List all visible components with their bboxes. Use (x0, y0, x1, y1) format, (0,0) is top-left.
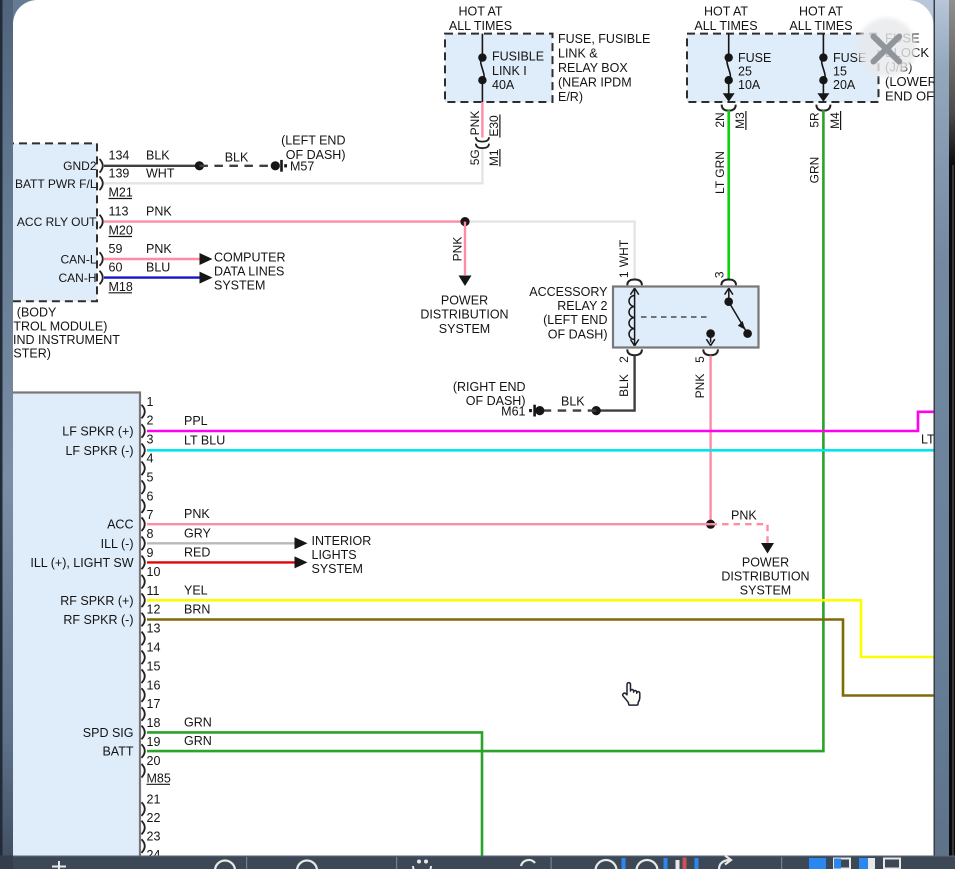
relay switch blade (729, 302, 752, 338)
pin 17 bracket (142, 707, 145, 721)
svg-text:BLK: BLK (561, 395, 585, 409)
svg-text:POWER: POWER (742, 555, 789, 569)
svg-text:21: 21 (147, 792, 161, 806)
toolbar icon: blue square 3 (859, 858, 875, 869)
svg-text:FUSE: FUSE (738, 51, 771, 65)
svg-text:RELAY 2: RELAY 2 (557, 299, 607, 313)
svg-text:WHT: WHT (146, 166, 175, 180)
pin bracket GND2 (100, 159, 103, 173)
note POWER DISTRIBUTION SYSTEM (right) (721, 555, 809, 597)
arrow RED to interior lights (295, 556, 308, 568)
wire WHT junction to relay pin1 (465, 222, 635, 280)
wire GRN fuse15 to pin19 BATT (147, 110, 823, 751)
wire BLK dashed to M61 (540, 409, 596, 411)
toolbar icon: square 2 (834, 859, 850, 869)
wire LT BLU LF SPKR (-) (147, 449, 936, 452)
note (RIGHT END OF DASH) (453, 380, 526, 408)
toolbar icon: chart bars (676, 860, 680, 869)
label ACCESSORY RELAY 2 (LEFT END OF DASH) (529, 285, 608, 342)
svg-text:SYSTEM: SYSTEM (740, 584, 791, 598)
relay pin5 connector arc (703, 349, 718, 355)
svg-text:TROL MODULE): TROL MODULE) (13, 319, 107, 333)
svg-text:(RIGHT END: (RIGHT END (453, 380, 526, 394)
svg-text:(NEAR IPDM: (NEAR IPDM (558, 76, 632, 90)
svg-text:PNK: PNK (468, 111, 482, 136)
svg-text:STER): STER) (13, 347, 51, 361)
svg-text:113: 113 (109, 204, 129, 218)
svg-text:FUSE, FUSIBLE: FUSE, FUSIBLE (558, 32, 650, 46)
svg-text:PNK: PNK (693, 374, 707, 399)
wire BRN RF SPKR (-) (147, 620, 936, 696)
svg-text:15: 15 (147, 659, 161, 673)
toolbar icon: refresh (521, 860, 535, 866)
svg-text:M18: M18 (109, 280, 133, 294)
right scrollbar track (934, 0, 950, 869)
svg-text:DISTRIBUTION: DISTRIBUTION (420, 308, 508, 322)
svg-text:ALL TIMES: ALL TIMES (789, 19, 852, 33)
relay pin2 connector arc (627, 349, 642, 355)
wire GRN SPD SIG (147, 732, 482, 856)
junction dot ACC/PNK (706, 520, 715, 529)
toolbar icon: zoom circle 3 (596, 860, 617, 869)
svg-text:M1: M1 (487, 149, 501, 166)
svg-text:LF SPKR (-): LF SPKR (-) (65, 444, 133, 458)
pin 8 bracket (142, 537, 145, 551)
svg-text:POWER: POWER (441, 293, 488, 307)
svg-text:RF SPKR (+): RF SPKR (+) (60, 594, 133, 608)
accessory relay 2 box (613, 287, 759, 348)
note FUSE, FUSIBLE LINK & RELAY BOX (NEAR IPDM E/R) (558, 32, 650, 104)
svg-text:13: 13 (147, 622, 161, 636)
svg-text:5G: 5G (468, 149, 482, 165)
pin 24 bracket (142, 858, 145, 869)
relay pin1 connector arc (627, 280, 642, 286)
toolbar icon: square 4 (884, 859, 900, 869)
arrow CAN-H (200, 272, 213, 284)
relay linkage dashed line (641, 316, 711, 318)
label FUSE 15 20A (833, 51, 866, 92)
label HOT AT ALL TIMES (right) (789, 5, 852, 33)
wire PPL LF SPKR (+) (147, 412, 936, 431)
splice dot (592, 406, 601, 415)
svg-text:9: 9 (147, 546, 154, 560)
wire PNK drop to power distribution (464, 222, 466, 275)
svg-text:ALL TIMES: ALL TIMES (449, 19, 512, 33)
svg-text:E/R): E/R) (558, 90, 583, 104)
pin 2 bracket (142, 424, 145, 438)
svg-text:M3: M3 (733, 112, 747, 129)
rounded corner top-right (908, 0, 934, 26)
svg-text:GRN: GRN (184, 734, 212, 748)
toolbar icon: pan (52, 861, 66, 869)
svg-text:18: 18 (147, 716, 161, 730)
svg-text:BATT: BATT (102, 745, 133, 759)
svg-text:M85: M85 (147, 771, 171, 785)
svg-text:HOT AT: HOT AT (459, 5, 503, 19)
wire GRY ILL (-) (147, 542, 295, 544)
pin bracket BATT PWR F/L (100, 177, 103, 191)
svg-text:LT GRN: LT GRN (713, 151, 727, 194)
toolbar icon: blue bar 1 (622, 858, 626, 869)
pin 15 bracket (142, 669, 145, 683)
svg-text:GRN: GRN (184, 715, 212, 729)
wire PNK below fusible link (481, 102, 483, 138)
pin 14 bracket (142, 651, 145, 665)
pin 13 bracket (142, 632, 145, 646)
svg-text:DATA LINES: DATA LINES (214, 265, 284, 279)
svg-text:ALL TIMES: ALL TIMES (694, 19, 757, 33)
svg-text:LINK I: LINK I (492, 64, 527, 78)
pin 9 bracket (142, 556, 145, 570)
in-line connector E30/M1 (476, 137, 489, 148)
svg-text:CAN-L: CAN-L (60, 253, 96, 267)
relay switch pin3 contact (724, 288, 733, 306)
svg-text:PNK: PNK (146, 242, 172, 256)
wire ACC RLY OUT 113 PNK (104, 220, 465, 222)
svg-text:5: 5 (693, 356, 707, 363)
svg-text:PNK: PNK (146, 204, 172, 218)
svg-text:3: 3 (147, 433, 154, 447)
svg-text:1: 1 (617, 271, 631, 278)
svg-text:2: 2 (617, 356, 631, 363)
splice dot on BLK wire (195, 161, 204, 170)
note INTERIOR LIGHTS SYSTEM (312, 534, 372, 576)
svg-text:10: 10 (147, 565, 161, 579)
pin 11 bracket (142, 594, 145, 608)
svg-text:BATT PWR F/L: BATT PWR F/L (15, 177, 97, 191)
label HOT AT ALL TIMES (left) (449, 5, 512, 33)
svg-text:4: 4 (147, 452, 154, 466)
svg-text:20: 20 (147, 754, 161, 768)
toolbar separator (246, 857, 247, 869)
svg-text:60: 60 (109, 260, 123, 274)
pin 3 bracket (142, 444, 145, 458)
splice dot at M61 (535, 406, 544, 415)
wire BLK relay pin2 (596, 356, 634, 411)
pin 21 bracket (142, 802, 145, 816)
svg-text:OF DASH): OF DASH) (286, 148, 346, 162)
svg-text:LIGHTS: LIGHTS (312, 548, 357, 562)
svg-text:IND INSTRUMENT: IND INSTRUMENT (13, 333, 120, 347)
label FUSE 25 10A (738, 51, 771, 92)
wire BLK dashed segment to M57 (199, 165, 275, 167)
svg-text:OF DASH): OF DASH) (466, 394, 526, 408)
pin 19 bracket (142, 744, 145, 758)
svg-text:LT BLU: LT BLU (184, 433, 225, 447)
fuse block J/B box (dashed) (687, 34, 879, 102)
svg-text:LINK &: LINK & (558, 47, 598, 61)
svg-text:E30: E30 (487, 115, 501, 137)
svg-text:59: 59 (109, 242, 123, 256)
svg-text:139: 139 (109, 166, 130, 180)
note (LEFT END OF DASH) (281, 134, 345, 162)
toolbar icon: blue bar 2 (664, 858, 668, 869)
junction dot PNK/WHT (460, 217, 469, 226)
svg-text:ACC: ACC (107, 518, 133, 532)
arrow to power distribution system (right) (761, 543, 774, 554)
wire PNK relay pin5 to junction (709, 356, 711, 525)
pin 12 bracket (142, 613, 145, 627)
relay pin3 connector arc (721, 280, 736, 286)
toolbar icon: blue square 1 (809, 858, 826, 869)
pin 22 bracket (142, 821, 145, 835)
pin 23 bracket (142, 839, 145, 853)
wire PNK dashed to power distribution (711, 524, 768, 543)
toolbar icon: blue bar 3 (695, 858, 699, 869)
svg-text:ILL (-): ILL (-) (101, 537, 134, 551)
svg-text:WHT: WHT (617, 239, 631, 267)
svg-text:HOT AT: HOT AT (704, 5, 748, 19)
svg-text:1: 1 (147, 395, 154, 409)
wire CAN-H 60 BLU (104, 276, 200, 278)
fuse 15 20A symbol (817, 34, 829, 102)
connector 2N/M3 (722, 105, 736, 111)
svg-text:M20: M20 (109, 224, 133, 238)
svg-text:INTERIOR: INTERIOR (312, 534, 372, 548)
svg-text:GND2: GND2 (63, 159, 97, 173)
arrow CAN-L (200, 253, 213, 265)
label HOT AT ALL TIMES (middle) (694, 5, 757, 33)
relay pin5 contact (706, 329, 715, 345)
arrow to power distribution system (left) (459, 276, 472, 287)
toolbar separator (551, 857, 552, 869)
wire LT GRN fuse25 to relay pin3 (727, 110, 730, 279)
svg-text:RED: RED (184, 545, 210, 559)
svg-text:(LEFT END: (LEFT END (281, 134, 345, 148)
svg-text:BRN: BRN (184, 602, 210, 616)
svg-text:SYSTEM: SYSTEM (214, 279, 265, 293)
toolbar icon: share arrow (719, 856, 731, 869)
toolbar icon: keyboard (413, 860, 431, 869)
pin 7 bracket (142, 517, 145, 531)
bottom toolbar (0, 856, 955, 869)
svg-text:(BODY: (BODY (17, 306, 57, 320)
pin bracket CAN-H (100, 271, 103, 285)
toolbar icon: zoom circle 4 (637, 860, 658, 869)
splice dot at M57 (271, 161, 280, 170)
svg-text:15: 15 (833, 65, 847, 79)
svg-text:BLU: BLU (146, 260, 170, 274)
arrow GRY to interior lights (295, 537, 308, 549)
pin 20 bracket (142, 764, 145, 778)
relay coil with arrows (pin1-pin2) (629, 288, 639, 346)
wire YEL RF SPKR (+) (147, 600, 936, 657)
pin 16 bracket (142, 688, 145, 702)
fuse 25 10A symbol (723, 34, 735, 102)
ground connector symbol M61 (529, 405, 536, 417)
toolbar separator (396, 857, 397, 869)
svg-text:(LEFT END: (LEFT END (543, 313, 607, 327)
svg-text:19: 19 (147, 735, 161, 749)
wire GND2 134 BLK solid segment (104, 165, 199, 167)
rounded corner top-left (13, 0, 37, 24)
svg-text:11: 11 (147, 584, 160, 598)
right dark strip (949, 0, 955, 869)
svg-text:CAN-H: CAN-H (59, 271, 97, 285)
svg-text:DISTRIBUTION: DISTRIBUTION (721, 570, 809, 584)
svg-text:2N: 2N (713, 112, 727, 127)
svg-text:40A: 40A (492, 78, 515, 92)
svg-text:HOT AT: HOT AT (799, 5, 843, 19)
svg-text:SPD SIG: SPD SIG (83, 726, 134, 740)
svg-text:M4: M4 (828, 112, 842, 129)
svg-text:5R: 5R (808, 112, 822, 128)
svg-text:BLK: BLK (225, 151, 249, 165)
pin 5 bracket (142, 480, 145, 494)
svg-text:M21: M21 (109, 186, 133, 200)
svg-text:FUSIBLE: FUSIBLE (492, 50, 544, 64)
wire PNK ACC (147, 523, 711, 525)
toolbar separator (781, 857, 782, 869)
svg-text:12: 12 (147, 603, 161, 617)
svg-text:RELAY BOX: RELAY BOX (558, 61, 628, 75)
connector 5R/M4 (816, 105, 830, 111)
svg-text:PPL: PPL (184, 414, 208, 428)
svg-text:OF DASH): OF DASH) (548, 327, 608, 341)
svg-text:PNK: PNK (184, 507, 210, 521)
svg-text:PNK: PNK (731, 509, 757, 523)
svg-text:17: 17 (147, 697, 161, 711)
note POWER DISTRIBUTION SYSTEM (left) (420, 293, 508, 335)
pin bracket ACC RLY OUT (100, 215, 103, 229)
svg-text:134: 134 (109, 149, 130, 163)
svg-text:BLK: BLK (617, 374, 631, 397)
svg-text:14: 14 (147, 641, 161, 655)
svg-text:20A: 20A (833, 78, 856, 92)
svg-text:SYSTEM: SYSTEM (439, 322, 490, 336)
svg-text:GRY: GRY (184, 526, 212, 540)
mouse cursor (hand pointer) (623, 683, 640, 705)
svg-text:RF SPKR (-): RF SPKR (-) (63, 613, 133, 627)
ground connector symbol M57 (280, 160, 287, 172)
svg-text:23: 23 (147, 829, 161, 843)
svg-text:2: 2 (147, 414, 154, 428)
close button X (874, 37, 900, 62)
pin bracket CAN-L (100, 252, 103, 266)
svg-text:COMPUTER: COMPUTER (214, 250, 286, 264)
svg-text:25: 25 (738, 65, 752, 79)
label FUSIBLE LINK I 40A (492, 50, 544, 93)
note COMPUTER DATA LINES SYSTEM (214, 250, 286, 292)
toolbar icon: zoom circle 1 (215, 861, 235, 869)
radio/speaker connector box (6, 393, 140, 863)
svg-text:8: 8 (147, 527, 154, 541)
svg-text:22: 22 (147, 811, 161, 825)
svg-text:PNK: PNK (451, 237, 465, 262)
svg-text:ACCESSORY: ACCESSORY (529, 285, 608, 299)
pin 6 bracket (142, 499, 145, 513)
note FUSE BLOCK (J/B) (LOWER LEFT END OF DASH) (885, 31, 955, 104)
svg-text:ACC RLY OUT: ACC RLY OUT (17, 215, 97, 229)
note (BODY CONTROL MODULE) (BEHIND INSTRUMENT CLUSTER) (13, 306, 120, 361)
pin 18 bracket (142, 726, 145, 740)
svg-text:LF SPKR (+): LF SPKR (+) (62, 425, 133, 439)
svg-text:SYSTEM: SYSTEM (312, 562, 363, 576)
svg-text:YEL: YEL (184, 583, 208, 597)
wire BATT PWR F/L 139 WHT (104, 149, 482, 184)
close button disc (0, 0, 1, 1)
pin 4 bracket (142, 462, 145, 476)
svg-text:GRN: GRN (808, 157, 822, 184)
pin 1 bracket (142, 405, 145, 419)
wire CAN-L 59 PNK (104, 258, 200, 260)
fuse/fusible-link/relay box (dashed) (445, 34, 553, 102)
svg-text:6: 6 (147, 489, 154, 503)
svg-text:BLK: BLK (146, 149, 170, 163)
fusible link I 40A symbol (478, 34, 486, 102)
pin 10 bracket (142, 575, 145, 589)
svg-text:7: 7 (147, 508, 154, 522)
toolbar icon: zoom circle 2 (297, 861, 317, 869)
svg-text:10A: 10A (738, 78, 761, 92)
svg-text:3: 3 (712, 271, 726, 278)
svg-text:ILL (+), LIGHT SW: ILL (+), LIGHT SW (30, 556, 133, 570)
body control module connector box (dashed) (6, 143, 97, 301)
wire RED ILL (+) (147, 561, 295, 563)
svg-text:5: 5 (147, 470, 154, 484)
svg-text:16: 16 (147, 678, 161, 692)
